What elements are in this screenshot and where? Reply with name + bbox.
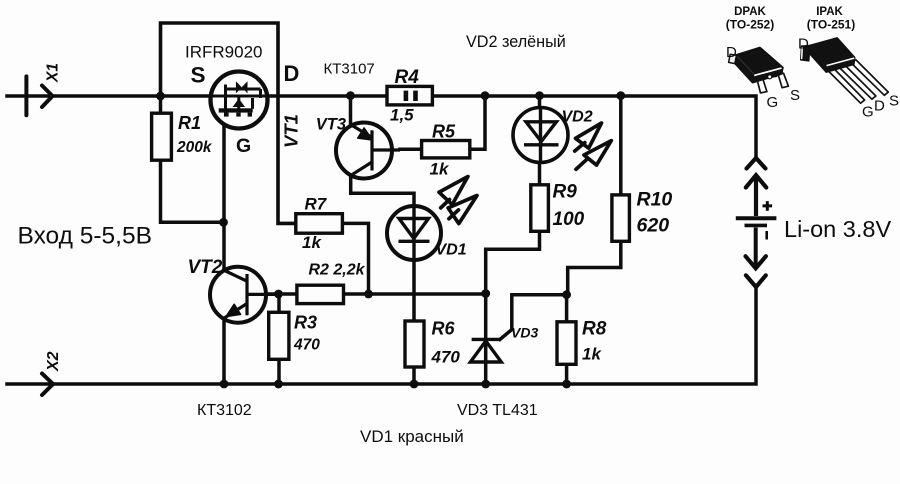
svg-text:470: 470 xyxy=(431,348,461,367)
led VD2 light arrows xyxy=(575,123,612,169)
wire R3 top lead xyxy=(277,294,281,312)
svg-text:G: G xyxy=(236,135,251,157)
wire R8 bottom lead xyxy=(565,364,569,384)
wire R3 bottom lead xyxy=(277,358,281,384)
svg-text:1k: 1k xyxy=(430,160,450,179)
svg-text:620: 620 xyxy=(637,215,670,237)
wire VD3 ref lead xyxy=(500,295,567,340)
junction node R5 on top rail xyxy=(481,91,490,100)
svg-text:R4: R4 xyxy=(395,67,420,88)
resistor R1 xyxy=(152,113,172,160)
battery plus plate xyxy=(736,201,777,266)
led VD1 xyxy=(387,206,441,260)
junction node VD3 anode on bottom rail xyxy=(481,380,490,389)
battery lower shaft + arrow down xyxy=(754,228,758,267)
wire bottom rail xyxy=(7,288,756,385)
wire R1 bottom to gate line xyxy=(161,160,224,222)
junction node R8 on bottom rail xyxy=(562,380,571,389)
junction node VD3 ref / R8 / R10 xyxy=(562,290,571,299)
wire R8 top lead xyxy=(565,295,569,322)
wire R5 right lead to top rail xyxy=(470,96,485,149)
svg-text:R1: R1 xyxy=(178,113,201,133)
junction node VT3 emitter on top rail xyxy=(346,91,355,100)
svg-text:X2: X2 xyxy=(45,351,62,372)
terminal X1 xyxy=(26,76,52,115)
svg-text:R8: R8 xyxy=(582,319,607,340)
svg-text:VD1 красный: VD1 красный xyxy=(360,427,464,446)
svg-text:1k: 1k xyxy=(582,345,602,364)
wire VD2 to R9 xyxy=(538,160,542,185)
resistor R9 xyxy=(531,185,549,232)
svg-text:D: D xyxy=(726,44,737,61)
mosfet VT1 gate ticks xyxy=(224,113,228,117)
svg-text:VD3: VD3 xyxy=(511,325,538,341)
svg-text:D: D xyxy=(798,36,809,53)
resistor R6 xyxy=(405,321,424,367)
led VD1 light arrows xyxy=(439,177,477,224)
junction node VT2 base / R3 / R2 xyxy=(274,290,283,299)
svg-text:VD1: VD1 xyxy=(436,242,467,259)
resistor R3 xyxy=(269,312,289,359)
svg-text:G: G xyxy=(862,104,874,121)
package DPAK legs xyxy=(756,77,767,93)
svg-text:D: D xyxy=(284,61,300,86)
resistor R5 xyxy=(422,141,470,158)
transistor VT2 emitter arrow xyxy=(226,304,241,316)
junction node VT2 emitter on bottom rail xyxy=(220,380,229,389)
wire VD1 to R6 xyxy=(412,257,416,321)
mosfet VT1 body diode xyxy=(233,99,245,108)
resistor R2 xyxy=(297,285,344,303)
mosfet VT1 internals xyxy=(211,85,268,117)
svg-text:VT3: VT3 xyxy=(316,116,346,134)
svg-text:S: S xyxy=(889,93,899,110)
svg-text:R10: R10 xyxy=(637,189,673,211)
svg-text:КТ3102: КТ3102 xyxy=(197,402,252,419)
svg-text:R3: R3 xyxy=(294,313,317,333)
resistor R4 xyxy=(387,86,432,105)
svg-text:(TO-251): (TO-251) xyxy=(807,18,855,32)
junction node R3 on bottom rail xyxy=(274,380,283,389)
svg-text:КТ3107: КТ3107 xyxy=(324,61,375,78)
svg-text:VD3 TL431: VD3 TL431 xyxy=(457,402,538,419)
svg-text:VD2: VD2 xyxy=(562,109,593,126)
wire VD3 cathode line xyxy=(484,294,488,385)
wire VD2 top lead xyxy=(538,96,542,110)
svg-text:R5: R5 xyxy=(432,122,456,142)
junction node VD3 cathode / R9 xyxy=(481,289,490,298)
wire gate line G down to VT2 collector xyxy=(222,112,226,271)
svg-text:R9: R9 xyxy=(553,182,578,203)
connector bottom (socket fork) xyxy=(746,275,766,287)
connector top (socket fork) xyxy=(747,158,766,169)
mosfet VT1 channel bar xyxy=(219,108,253,112)
package DPAK drawing xyxy=(729,47,789,93)
svg-text:Li-on 3.8V: Li-on 3.8V xyxy=(784,216,891,242)
svg-text:R2 2,2k: R2 2,2k xyxy=(309,262,366,279)
connector top (plug arrow) xyxy=(746,175,767,216)
junction node R6 on bottom rail xyxy=(410,380,419,389)
package DPAK tab xyxy=(729,54,737,63)
wire VT3 collector to VD1 xyxy=(351,175,414,210)
svg-text:VT1: VT1 xyxy=(281,114,302,148)
svg-text:G: G xyxy=(767,94,779,111)
svg-text:1,5: 1,5 xyxy=(390,106,414,125)
battery plus sign xyxy=(763,201,773,211)
package IPAK tab xyxy=(801,45,810,61)
wire R10 top lead xyxy=(619,96,623,195)
svg-text:200k: 200k xyxy=(176,139,213,156)
junction node VD2 on top rail xyxy=(535,91,544,100)
wire VT2 base to R2 xyxy=(247,292,297,296)
mosfet VT1 bowtie xyxy=(236,81,248,93)
junction node R2 / R7 xyxy=(364,290,373,299)
package IPAK drawing xyxy=(801,38,889,103)
svg-text:R6: R6 xyxy=(432,319,456,339)
transistor VT2 xyxy=(210,267,278,323)
wire R2 node to VD3 node xyxy=(369,292,486,296)
wire R10 bottom elbow xyxy=(568,241,621,294)
mosfet VT1 circle xyxy=(211,72,268,129)
svg-text:VD2 зелёный: VD2 зелёный xyxy=(466,33,566,51)
svg-text:IRFR9020: IRFR9020 xyxy=(185,43,262,62)
wire R9 bottom elbow to VD3 node xyxy=(486,231,540,294)
svg-text:S: S xyxy=(790,87,800,104)
wire gate-box S to R7 xyxy=(161,23,296,223)
package DPAK body xyxy=(735,47,783,82)
svg-text:100: 100 xyxy=(553,209,585,230)
wire VT2 emitter down xyxy=(222,318,226,384)
wire R6 bottom lead xyxy=(412,366,416,384)
terminal X2 xyxy=(42,374,53,396)
svg-text:(TO-252): (TO-252) xyxy=(726,18,774,32)
svg-text:S: S xyxy=(191,63,206,88)
shunt reg VD3 TL431 xyxy=(470,339,501,362)
svg-text:Вход 5-5,5В: Вход 5-5,5В xyxy=(18,223,152,250)
transistor VT3 xyxy=(336,123,400,179)
junction node gate G / R1 bottom xyxy=(219,218,228,227)
transistor VT3 emitter arrow xyxy=(358,128,373,140)
led VD2 xyxy=(513,108,568,163)
wire R5 left lead xyxy=(400,148,422,152)
battery I mark xyxy=(765,231,768,240)
svg-text:DPAK: DPAK xyxy=(734,6,766,18)
svg-text:IPAK: IPAK xyxy=(816,6,843,18)
resistor R8 xyxy=(557,322,576,365)
package IPAK legs xyxy=(827,68,865,103)
package IPAK body xyxy=(809,38,855,72)
battery minus plate xyxy=(745,224,768,228)
svg-text:R7: R7 xyxy=(305,195,328,214)
wire top rail xyxy=(7,96,756,158)
svg-text:1k: 1k xyxy=(302,233,322,252)
svg-text:470: 470 xyxy=(293,337,320,354)
junction node S / R1 top / X1 rail xyxy=(156,92,165,101)
svg-text:D: D xyxy=(874,98,885,115)
svg-text:X1: X1 xyxy=(45,63,62,83)
wire R1 top lead xyxy=(159,96,163,114)
wire VT3 emitter from top rail xyxy=(349,96,353,126)
wire R2 right to R7 elbow xyxy=(342,223,368,294)
svg-text:VT2: VT2 xyxy=(188,257,223,278)
junction node R10 on top rail xyxy=(616,91,625,100)
resistor R7 xyxy=(296,214,343,234)
resistor R10 xyxy=(612,195,630,241)
